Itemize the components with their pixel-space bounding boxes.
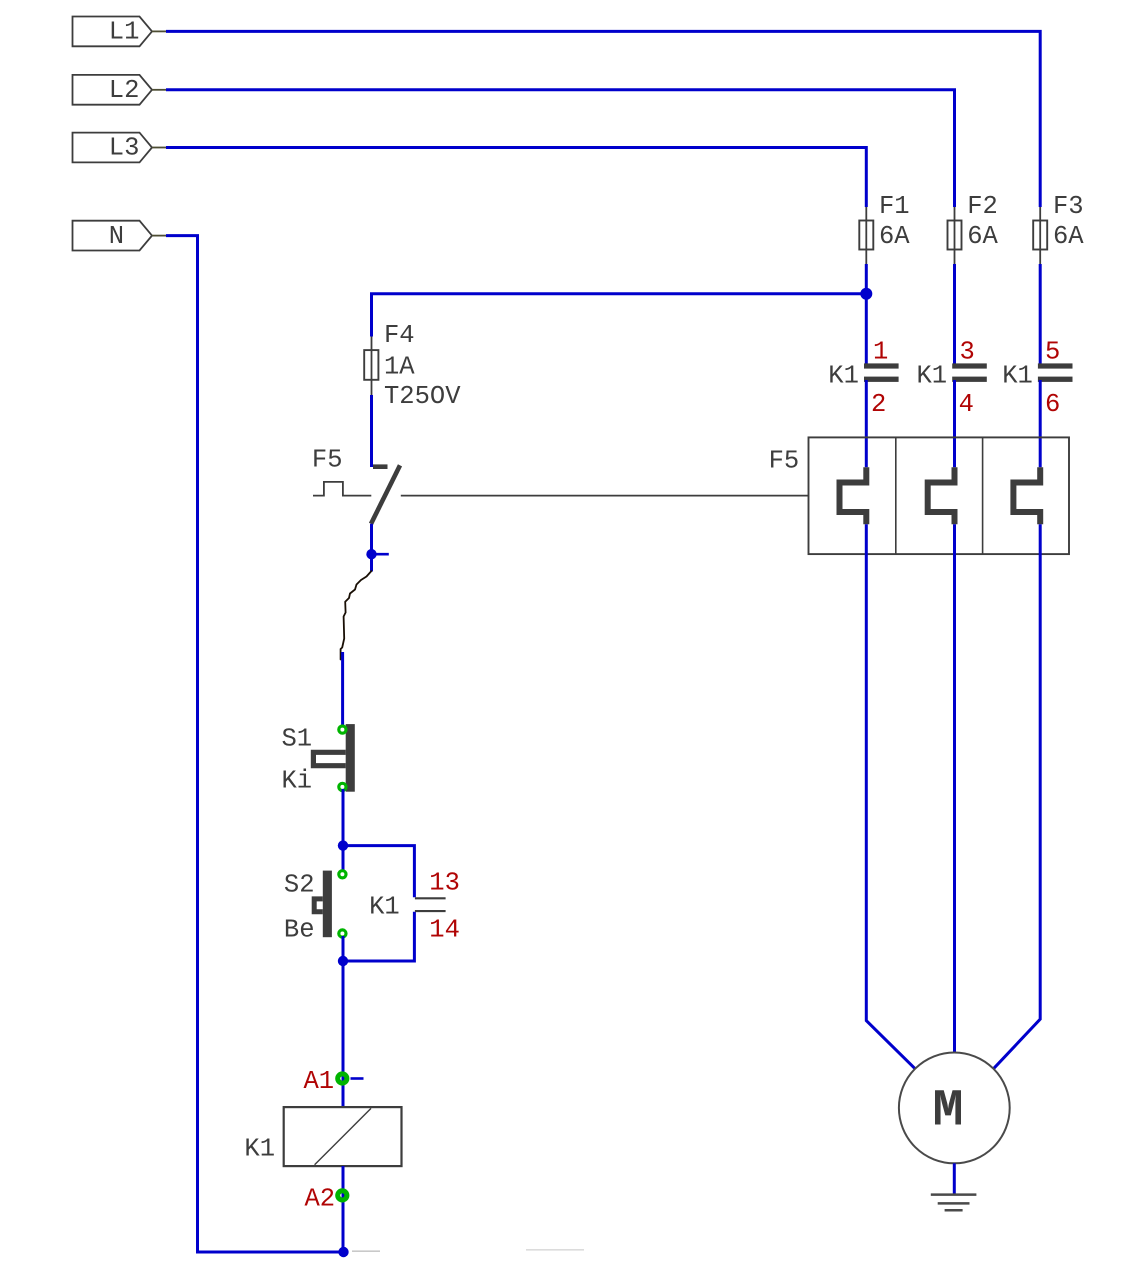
svg-text:F3: F3 [1053, 192, 1084, 221]
svg-text:6: 6 [1045, 390, 1060, 419]
wire S1 to node [342, 789, 345, 846]
wire F1 column fuse to contact [865, 264, 868, 365]
wire S2 to node [342, 936, 345, 961]
svg-text:6A: 6A [1053, 222, 1084, 251]
terminal A2 [305, 1185, 347, 1214]
mechanical link curve [341, 571, 372, 660]
aux contact K1 13-14 [369, 868, 460, 944]
node S2/K1 branch top [338, 840, 348, 850]
wire to S1 [341, 652, 344, 727]
svg-text:A1: A1 [304, 1067, 335, 1096]
svg-text:M: M [933, 1082, 964, 1141]
overload relay F5 box [769, 437, 1069, 554]
wire L1 [152, 31, 1040, 207]
motor M [899, 1053, 1010, 1164]
wire K1 aux branch [343, 846, 414, 961]
wire overload to motor left [866, 524, 915, 1069]
svg-text:F5: F5 [769, 447, 800, 476]
svg-text:F1: F1 [879, 192, 910, 221]
terminal tag L3 [73, 133, 153, 163]
svg-text:K1: K1 [1002, 362, 1033, 391]
wire S2 top [342, 846, 345, 872]
overload NC contact F5 [312, 446, 400, 524]
terminal tag L1 [73, 17, 153, 47]
svg-text:L2: L2 [109, 76, 140, 105]
contactor contact K1 3-4 [917, 338, 987, 420]
terminal S2 bottom [339, 930, 346, 937]
fuse F3 [1033, 192, 1084, 264]
wire overload to motor right [993, 524, 1040, 1069]
contactor contact K1 5-6 [1002, 338, 1072, 420]
wire F4 to F5 contact [370, 395, 373, 467]
svg-text:L1: L1 [109, 18, 140, 47]
thermal element 3 [1013, 467, 1040, 524]
node below F5 contact [366, 549, 389, 572]
terminal A1 [304, 1067, 364, 1096]
wire control tap [372, 294, 867, 337]
wire coil to bottom [342, 1166, 345, 1252]
svg-text:K1: K1 [244, 1135, 275, 1164]
wire motor to ground [953, 1163, 956, 1194]
svg-text:K1: K1 [828, 362, 859, 391]
trip linkage line [313, 482, 809, 496]
svg-text:K1: K1 [917, 362, 948, 391]
node S2/K1 branch bottom [338, 956, 348, 966]
wire F5 contact to node [370, 524, 373, 554]
svg-text:4: 4 [959, 390, 974, 419]
svg-text:Be: Be [284, 916, 315, 945]
pushbutton S2 (NC, Be) [284, 871, 332, 945]
svg-text:5: 5 [1045, 338, 1060, 367]
thermal element 2 [928, 467, 955, 524]
wire F1 contact to overload [865, 380, 868, 467]
wire L3 [152, 148, 866, 208]
svg-text:L3: L3 [109, 134, 140, 163]
svg-text:K1: K1 [369, 893, 400, 922]
svg-text:13: 13 [429, 868, 460, 897]
svg-text:S1: S1 [282, 725, 313, 754]
fuse F2 [948, 192, 999, 264]
svg-text:6A: 6A [879, 222, 910, 251]
wire to coil [342, 961, 345, 1107]
terminal S1 top [339, 726, 346, 733]
terminal tag N [73, 221, 153, 251]
svg-text:F5: F5 [312, 446, 343, 475]
wire overload to motor middle [953, 524, 956, 1053]
svg-text:S2: S2 [284, 871, 315, 900]
svg-text:N: N [109, 222, 124, 251]
wire F2 contact to overload [953, 380, 956, 467]
fuse F1 [859, 192, 910, 264]
wire N [152, 236, 344, 1252]
svg-text:6A: 6A [967, 222, 998, 251]
ground [931, 1195, 977, 1211]
svg-text:1A: 1A [384, 353, 415, 382]
svg-text:1: 1 [873, 338, 888, 367]
svg-text:F4: F4 [384, 321, 415, 350]
svg-text:A2: A2 [305, 1185, 336, 1214]
wire F3 column fuse to contact [1039, 264, 1042, 365]
node bottom junction [338, 1247, 584, 1257]
wire L2 [152, 90, 955, 207]
node junction F1/control [860, 288, 872, 300]
svg-text:Ki: Ki [282, 767, 313, 796]
svg-text:3: 3 [960, 338, 975, 367]
terminal tag L2 [73, 75, 153, 105]
wire F3 contact to overload [1039, 380, 1042, 467]
coil K1 [244, 1107, 401, 1166]
wire F2 column fuse to contact [953, 264, 956, 365]
svg-text:T25OV: T25OV [384, 382, 461, 411]
svg-text:2: 2 [871, 390, 886, 419]
fuse F4 [364, 321, 461, 411]
contactor contact K1 1-2 [828, 338, 898, 420]
terminal S1 bottom [339, 783, 346, 790]
terminal S2 top [339, 871, 346, 878]
svg-text:F2: F2 [967, 192, 998, 221]
thermal element 1 [840, 467, 867, 524]
pushbutton S1 (NO, Ki) [282, 724, 355, 795]
svg-text:14: 14 [429, 915, 460, 944]
